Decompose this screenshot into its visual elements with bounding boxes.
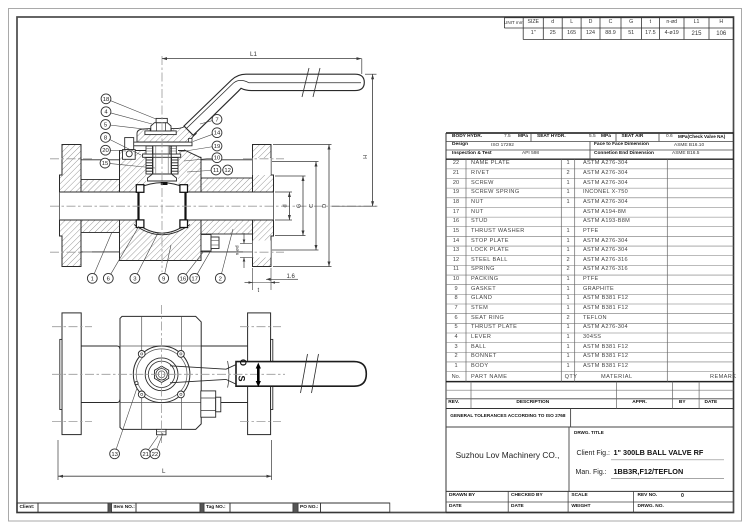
body (hatched section) [120, 151, 202, 261]
dimension n-ød (bolt hole) [243, 233, 245, 244]
left raised face [60, 339, 62, 409]
balloon 12 [222, 165, 233, 175]
dimension D [328, 145, 330, 267]
balloon 7 [200, 114, 222, 124]
balloon 13 [110, 388, 137, 459]
balloon 9 [159, 245, 171, 283]
centerline stem axis [161, 56, 163, 272]
balloon 14 [193, 128, 222, 142]
balloon 2 [215, 229, 233, 283]
dimension L [58, 475, 272, 477]
stem (item 7) [152, 146, 154, 174]
balloon 17 [190, 249, 212, 284]
dimension L1 [162, 58, 362, 60]
grip bar (plan) [236, 362, 366, 387]
dimension t [245, 282, 253, 284]
centerline horizontal (bore axis) [50, 205, 380, 207]
balloon 18 [101, 94, 156, 119]
balloon 1 [87, 232, 112, 283]
gland plate (item 8) [143, 154, 181, 157]
tang flare rim [236, 365, 238, 384]
right neck bands [201, 178, 253, 192]
O / S marks [238, 358, 247, 365]
balloon 20 [101, 145, 126, 155]
packing lines (item 10) [146, 159, 153, 161]
body top right slant [184, 149, 203, 157]
screw bracket (items 19/20) [125, 138, 134, 150]
balloon 5 [101, 120, 148, 130]
bolt hole centerlines [50, 158, 93, 160]
lever break marks [302, 68, 309, 97]
O/S direction arrow [257, 366, 260, 384]
bottom view: valve plan view [52, 305, 366, 480]
balloon 8 [101, 133, 141, 156]
left flange disc [62, 313, 81, 435]
body block [120, 316, 201, 429]
stem channel cutout [146, 137, 178, 185]
bore lines [60, 191, 139, 193]
ball (item 3) [139, 192, 186, 233]
dimension C [315, 162, 317, 251]
grip break marks [301, 354, 308, 393]
hex nut (item 4/18) [151, 123, 171, 131]
mounting pad circles [133, 346, 190, 403]
left flange (hatched section) [60, 145, 82, 267]
body interior lines [141, 316, 143, 429]
balloon 11 [187, 165, 221, 175]
stem tip [156, 118, 167, 122]
seat rings (item 6) [136, 185, 144, 193]
drain boss (plan) [201, 391, 216, 417]
swing arc [228, 361, 229, 388]
cavity walls [137, 192, 139, 220]
right raised face [271, 339, 273, 409]
surface finish 1.6 leader [266, 278, 288, 280]
balloon 4 [101, 107, 152, 124]
bonnet side columns [146, 158, 153, 175]
dimension d [288, 192, 290, 220]
balloon 6 [103, 226, 139, 283]
dimension G [302, 176, 304, 236]
left hub [81, 346, 120, 403]
stop plate (item 14) [127, 142, 192, 146]
name plate nub (items 21/22) [157, 429, 167, 434]
drain plug boss (items 16/17) [201, 235, 211, 252]
washer (item 5) [145, 131, 176, 135]
balloon 19 [179, 141, 222, 152]
balloon 10 [184, 153, 222, 163]
balloon 21 [141, 436, 158, 459]
cavity bottom arc [134, 225, 190, 235]
dimension H [372, 74, 374, 206]
stem hex nut [155, 366, 169, 382]
lever (item 4) handle [184, 74, 364, 135]
right flange (hatched section) [253, 145, 274, 267]
right flange disc [248, 313, 271, 435]
pad bolts [138, 351, 145, 358]
stem T-flare [148, 174, 177, 181]
ball cavity [139, 185, 186, 228]
stem boss rings [145, 358, 178, 391]
balloon 22 [150, 433, 163, 459]
balloon 16 [178, 251, 204, 283]
gland bolts (items 19/20) [146, 146, 153, 154]
lever boss (hatched section) [137, 125, 196, 142]
lever tang [170, 365, 236, 384]
hub silhouette lines [81, 159, 120, 161]
balloon 15 [100, 158, 155, 168]
right hub/neck lines [201, 345, 247, 347]
balloon 3 [130, 233, 158, 283]
thrust washer dark blob [161, 182, 168, 185]
top view: valve cross-section [50, 56, 380, 290]
bore channel [60, 192, 274, 220]
dimension labels [250, 52, 257, 58]
right flange bolt holes [253, 158, 271, 175]
small pin hole [135, 382, 138, 385]
centerlines bottom view [161, 305, 163, 443]
left neck bands [81, 180, 120, 193]
lever fold lines [187, 80, 362, 128]
